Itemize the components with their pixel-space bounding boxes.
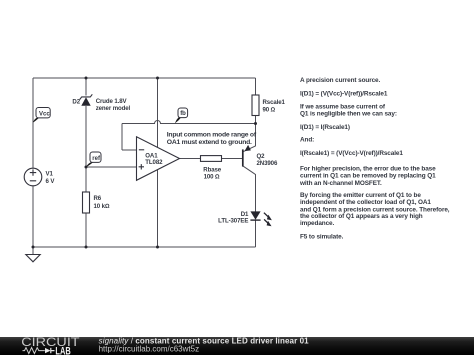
svg-text:OA1 must extend to ground.: OA1 must extend to ground. xyxy=(167,139,252,146)
svg-text:I(D1) = (V(Vcc)-V(ref))/Rscale: I(D1) = (V(Vcc)-V(ref))/Rscale1 xyxy=(300,91,388,98)
svg-text:90 Ω: 90 Ω xyxy=(263,107,276,114)
svg-text:10 kΩ: 10 kΩ xyxy=(94,203,110,210)
svg-text:LAB: LAB xyxy=(55,346,70,355)
svg-text:Q2: Q2 xyxy=(257,153,266,160)
svg-text:CIRCUIT: CIRCUIT xyxy=(21,335,79,349)
svg-text:V1: V1 xyxy=(46,170,54,177)
svg-text:TL082: TL082 xyxy=(145,159,163,166)
svg-text:6 V: 6 V xyxy=(46,178,56,185)
svg-text:Vcc: Vcc xyxy=(39,111,50,117)
svg-text:D2: D2 xyxy=(72,99,80,106)
svg-text:2N3906: 2N3906 xyxy=(257,160,278,167)
svg-text:Q1 is negligible then we can s: Q1 is negligible then we can say: xyxy=(300,111,397,118)
svg-text:current in Q1 can be removed b: current in Q1 can be removed by replacin… xyxy=(300,173,436,180)
svg-text:A precision current source.: A precision current source. xyxy=(300,77,380,84)
svg-text:Rbase: Rbase xyxy=(203,167,222,174)
svg-text:Crude 1.8V: Crude 1.8V xyxy=(96,98,128,105)
svg-text:R6: R6 xyxy=(94,195,102,202)
svg-text:Input common mode range of: Input common mode range of xyxy=(167,132,257,139)
svg-text:F5 to simulate.: F5 to simulate. xyxy=(300,234,344,241)
svg-text:100 Ω: 100 Ω xyxy=(204,174,220,181)
svg-text:fb: fb xyxy=(180,111,186,117)
svg-text:If we assume base current of: If we assume base current of xyxy=(300,104,386,111)
svg-text:http://circuitlab.com/c63wt5z: http://circuitlab.com/c63wt5z xyxy=(99,344,199,353)
svg-text:I(Rscale1) = (V(Vcc)-V(ref))/R: I(Rscale1) = (V(Vcc)-V(ref))/Rscale1 xyxy=(300,150,403,157)
svg-text:impedance.: impedance. xyxy=(300,220,334,227)
svg-text:And:: And: xyxy=(300,137,314,144)
svg-text:Rscale1: Rscale1 xyxy=(263,99,286,106)
svg-text:I(D1) = I(Rscale1): I(D1) = I(Rscale1) xyxy=(300,124,350,131)
svg-text:independent of the collector l: independent of the collector load of Q1,… xyxy=(300,199,431,206)
svg-text:LTL-307EE: LTL-307EE xyxy=(218,218,248,225)
svg-text:with an N-channel MOSFET.: with an N-channel MOSFET. xyxy=(299,180,382,187)
svg-text:ref: ref xyxy=(92,156,101,162)
svg-text:zener model: zener model xyxy=(96,105,131,112)
